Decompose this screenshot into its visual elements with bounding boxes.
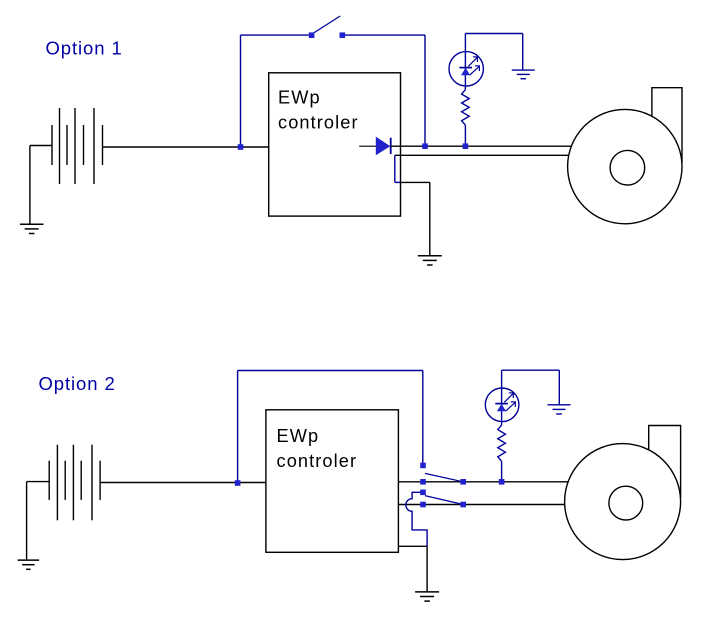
resistor R1: [462, 90, 470, 125]
battery B2: [49, 445, 100, 521]
LED LD1: [449, 52, 483, 86]
node resistor-motor junction: [463, 143, 469, 149]
relay contact K2 lever: [425, 496, 463, 505]
label Option 1: [46, 38, 123, 59]
node K1 on positive lead: [420, 479, 426, 485]
relay contact K1 top terminal: [420, 463, 426, 469]
battery B1: [52, 108, 103, 184]
LED LD2: [485, 388, 519, 422]
switch S1 terminal left: [309, 32, 315, 38]
wire LED LD1 to ground (option 1): [465, 34, 522, 70]
label U1 EWp controler: [278, 88, 359, 133]
relay contact K1 lever: [425, 473, 463, 481]
svg-text:Option 2: Option 2: [39, 373, 116, 394]
ground battery B2: [18, 560, 39, 569]
wire battery B1 to controller input: [103, 146, 269, 148]
wire controller U1 ground pin stub: [395, 155, 430, 182]
motor M1 water pump: [568, 88, 682, 224]
node K2 right terminal: [460, 502, 466, 508]
op box EWp controler U2: [266, 410, 399, 553]
switch S1 terminal right: [340, 32, 346, 38]
wire K2 terminal to ground hook (jump over return lead): [406, 492, 427, 546]
wire battery B1 negative terminal: [30, 146, 52, 225]
wire motor M1 return lead: [395, 154, 569, 156]
wire controller U2 bottom stub: [398, 545, 427, 547]
op box EWp controler U1: [269, 73, 401, 216]
node K2 on return lead: [420, 502, 426, 508]
diode D1: [359, 137, 391, 156]
ground battery B1: [20, 224, 44, 233]
wire motor M2 return lead: [398, 504, 564, 506]
ground G2 (LED, option 1): [512, 70, 535, 79]
wire to ground (option 2): [426, 546, 428, 592]
wire motor M2 positive lead: [398, 481, 567, 483]
node battery-loop junction (option 2): [235, 480, 241, 486]
node K1 right terminal: [460, 479, 466, 485]
wire ignition loop (node to switch to controller pin): [241, 35, 426, 147]
ground G1 (controller return): [418, 256, 442, 265]
svg-text:Option 1: Option 1: [46, 38, 123, 59]
svg-text:controler: controler: [278, 113, 359, 133]
switch S1 lever: [313, 16, 340, 33]
svg-text:controler: controler: [277, 451, 358, 471]
svg-text:EWp: EWp: [277, 426, 320, 446]
wire LED LD2 to ground (option 2): [502, 370, 560, 404]
label Option 2: [39, 373, 116, 394]
node loop-motor junction: [422, 143, 428, 149]
svg-text:EWp: EWp: [278, 88, 321, 108]
node battery-loop junction: [238, 144, 244, 150]
node resistor-motor junction (option 2): [499, 479, 505, 485]
wire LED branch vertical (option 2): [501, 370, 503, 425]
wire resistor R2 to motor lead: [501, 461, 503, 482]
ground G3 (relay return, option 2): [415, 592, 439, 601]
wire battery B2 to controller input: [100, 482, 266, 484]
wire resistor R1 to motor lead: [464, 125, 466, 146]
wire motor M1 positive lead: [391, 145, 572, 147]
relay contact K2 top terminal: [420, 490, 426, 496]
label U2 EWp controler: [277, 426, 358, 471]
wire to ground (option 1): [429, 182, 431, 255]
motor M2 water pump: [565, 426, 681, 560]
ground G4 (LED, option 2): [548, 405, 571, 414]
resistor R2: [498, 425, 506, 461]
wire relay supply loop (option 2): [238, 371, 423, 484]
wire battery B2 negative terminal: [27, 482, 50, 560]
wire LED branch vertical (option 1): [464, 34, 466, 90]
